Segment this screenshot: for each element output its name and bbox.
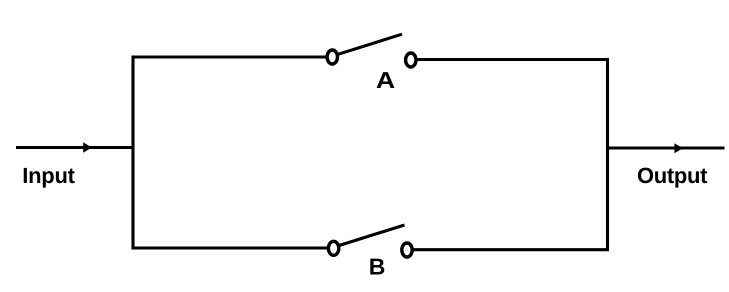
wire top branch to switch A: [133, 55, 328, 58]
switch B blade: [340, 225, 405, 245]
wire left vertical branch: [131, 56, 134, 250]
switch A blade: [338, 34, 402, 54]
wire input lead: [16, 146, 134, 149]
switch B right contact: [402, 243, 412, 257]
svg-text:Output: Output: [637, 163, 708, 188]
svg-text:B: B: [369, 254, 386, 280]
switch A left contact: [327, 50, 337, 64]
wire bottom branch to switch B: [133, 246, 329, 249]
switch A right contact: [406, 53, 416, 67]
wire output lead: [608, 146, 725, 149]
svg-text:Input: Input: [22, 163, 75, 188]
wire switch A to right vertical: [417, 58, 610, 61]
wire switch B to right vertical: [413, 248, 609, 251]
output arrowhead: [674, 143, 683, 153]
switch B left contact: [328, 241, 338, 255]
wire right vertical branch: [606, 58, 609, 251]
svg-text:A: A: [376, 67, 395, 93]
input arrowhead: [83, 142, 92, 153]
